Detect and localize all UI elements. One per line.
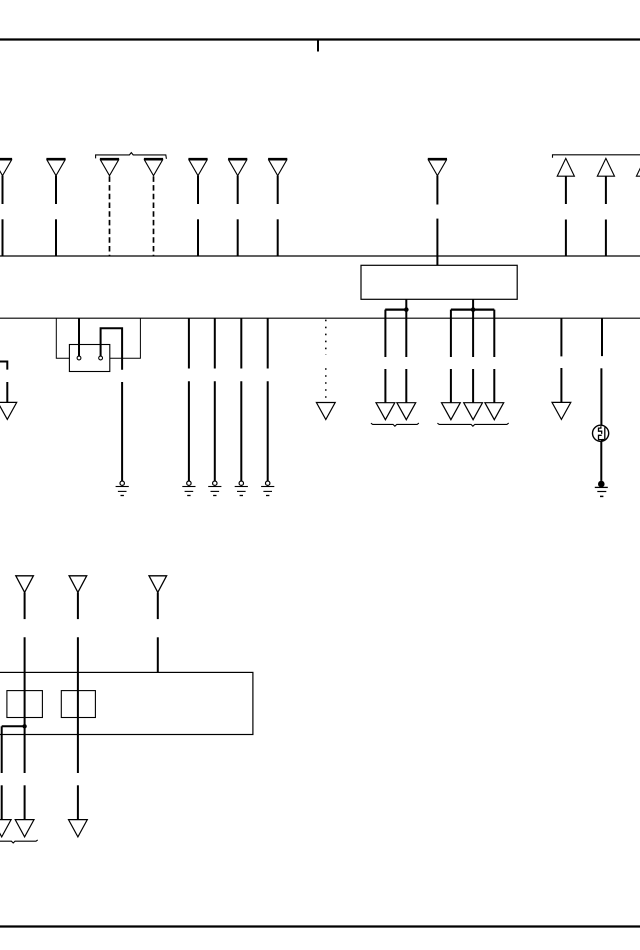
wire down to ground G1	[121, 382, 123, 481]
fuse F2 box	[61, 691, 95, 718]
wire from U1 to right junction bar	[472, 299, 474, 357]
wire from bus 2 to bulb L1	[600, 318, 603, 425]
junction dot below F1	[22, 724, 26, 728]
connector E5 (down triangle)	[15, 820, 34, 837]
connector B2 (up arrow)	[597, 158, 614, 176]
wire left branch down	[385, 310, 406, 403]
bulb L1	[593, 425, 609, 441]
ground G4	[235, 481, 248, 496]
ground G5	[261, 481, 274, 496]
wire from relay K1 pin 2 to bus 2	[110, 318, 141, 358]
ground G2	[182, 481, 195, 496]
wire from connector B2 to bus 1	[605, 176, 607, 256]
wire from connector A5 to bus 1	[197, 176, 199, 256]
wire from bus 2 to ground G3	[214, 318, 216, 481]
wire down to connector E5	[24, 726, 26, 819]
connector B1 (up arrow)	[557, 158, 574, 176]
fuse F1 box	[7, 691, 43, 718]
frame top tick mark	[317, 39, 319, 52]
wire from bus 2 to relay K1 terminal	[78, 318, 80, 356]
junction dot left	[404, 307, 409, 312]
dotted wire from bus 2 to connector D2	[325, 320, 327, 399]
relay K1 terminal 2	[99, 356, 103, 360]
right junction bar	[451, 309, 494, 311]
dashed wire from connector A4 to bus 1	[153, 176, 155, 256]
junction dot right	[471, 307, 476, 312]
ground G1	[116, 481, 129, 496]
wire from connector A7 to bus 1	[277, 176, 279, 256]
underbrace below C3 C4 C5	[437, 423, 508, 426]
connector A1 (down triangle, clipped at left edge)	[0, 159, 12, 176]
ground G6 (bolted ground, filled)	[595, 481, 608, 497]
ground G3	[208, 481, 221, 496]
connector D2 (down triangle)	[316, 403, 335, 420]
relay K1 terminal 1	[77, 356, 81, 360]
connector A7 (down triangle)	[268, 159, 287, 176]
wire right branch down	[451, 310, 494, 403]
connector E2 (down triangle)	[69, 576, 87, 593]
wire from connector A8 through bus 1 into control box	[436, 176, 438, 266]
wire branch to left	[2, 725, 25, 727]
brace over connectors A3 A4	[96, 153, 167, 159]
wire from connector A2 to bus 1	[55, 176, 57, 256]
wire from connector E3 to junction box	[157, 593, 159, 673]
wire from bus 2 to relay K1 pin 1	[56, 318, 69, 358]
wire stub from left page edge	[0, 362, 7, 370]
connector C4 (down triangle)	[464, 403, 483, 420]
relay K1 box	[69, 345, 109, 372]
connector D1 (down triangle, clipped at left edge)	[0, 402, 17, 419]
connector A6 (down triangle)	[228, 159, 247, 176]
underbrace below E4 E5	[0, 840, 38, 843]
wire from bus 2 to ground G2	[188, 318, 190, 481]
connector A8 (down triangle above control box)	[428, 159, 447, 176]
bus 1 (upper harness line)	[0, 255, 640, 257]
connector A4 (down triangle)	[144, 159, 163, 176]
wire to connector D1	[6, 382, 8, 402]
frame bottom border line	[0, 925, 640, 927]
underbrace below C1 C2	[371, 423, 419, 426]
wire from relay K1 terminal 2 over to ground drop	[101, 328, 123, 370]
wire from bus 2 to ground G4	[240, 318, 242, 481]
bus 2 (lower harness line)	[0, 317, 640, 319]
connector A5 (down triangle)	[188, 159, 207, 176]
connector C1 (down triangle)	[376, 403, 395, 420]
connector E1 (down triangle)	[16, 576, 34, 593]
wire from U1 to left junction bar	[405, 299, 407, 357]
left junction bar	[385, 309, 407, 311]
junction box J1 (clipped at left edge)	[0, 672, 253, 734]
connector E3 (down triangle)	[149, 576, 167, 593]
wire down to connector E4	[1, 726, 3, 819]
wire from connector A6 to bus 1	[237, 176, 239, 256]
connector C2 (down triangle)	[397, 403, 416, 420]
wire from bulb L1 to ground G6	[600, 441, 602, 481]
connector C5 (down triangle)	[485, 403, 504, 420]
wire from connector E1 into fuse box F1	[24, 593, 26, 727]
connector E6 (down triangle)	[69, 820, 88, 837]
wire from bus 2 to ground G5	[267, 318, 269, 481]
dashed wire from connector A3 to bus 1	[109, 176, 111, 256]
frame top border line	[0, 38, 640, 40]
connector A2 (down triangle)	[46, 159, 65, 176]
brace over connectors B1 B2	[553, 155, 640, 158]
connector C3 (down triangle)	[442, 403, 461, 420]
control box U1	[361, 265, 517, 299]
wire from connector E2 through fuse box F2	[77, 593, 79, 820]
connector B3 (up arrow, clipped at right edge)	[636, 158, 640, 176]
wire from bus 2 to connector D3	[560, 318, 562, 402]
wire from connector A1 to bus 1	[2, 176, 4, 256]
connector A3 (down triangle)	[100, 159, 119, 176]
wire from connector B1 to bus 1	[565, 176, 567, 256]
connector D3 (down triangle)	[552, 402, 571, 419]
connector E4 (down triangle, clipped at left edge)	[0, 820, 11, 837]
